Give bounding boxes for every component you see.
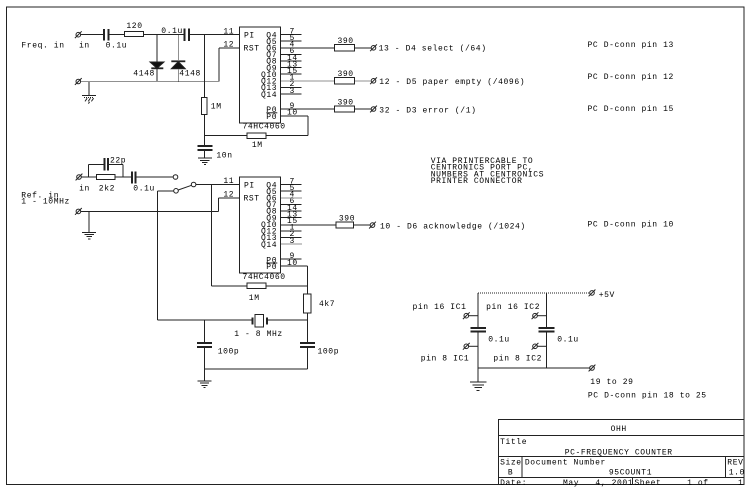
ground oscillator [198,369,212,388]
wire Q6 pin4 out [281,47,335,49]
svg-text:100p: 100p [218,348,240,357]
wire decoupling col2 [546,293,548,368]
wire [306,313,308,343]
svg-text:11: 11 [223,177,234,186]
title block size divider [521,457,523,478]
wire [196,184,240,186]
svg-text:120: 120 [126,22,142,31]
resistor R 390 row3 [335,106,355,112]
svg-text:3: 3 [290,237,295,246]
resistor R 1M feedback [247,133,266,138]
pin stub Q6 pin4 IC2 [281,197,302,199]
wire 22p branch [89,164,105,177]
pin stub Q14 pin3 IC2 [281,243,302,245]
wire P0bar pin10 IC2 [281,266,308,294]
svg-text:in: in [79,41,90,50]
wire Q12 pin1 out [281,80,335,82]
wire feedback IC2 row [212,285,247,287]
resistor R 390 row4 [336,222,353,228]
connector +5V [589,290,596,297]
svg-text:0.1u: 0.1u [133,184,155,193]
svg-text:390: 390 [338,98,354,107]
svg-text:PC D-conn pin 10: PC D-conn pin 10 [588,221,674,230]
pin stub Q10 pin15 [281,73,302,75]
wire RST IC2 [219,198,240,212]
wire [136,176,174,178]
capacitor C 0.1u IC1 [470,328,486,332]
svg-text:PI: PI [244,181,255,190]
connector pin16 IC2 [532,312,547,319]
connector J1 ground pin [75,78,82,85]
wire [109,34,125,36]
svg-text:1M: 1M [249,294,260,303]
wire [353,224,370,226]
svg-text:100p: 100p [318,348,340,357]
svg-text:1M: 1M [211,103,222,112]
resistor R 4k7 [304,294,311,313]
op-amp U1 74HC4060 body [240,27,281,123]
ground power [470,368,487,390]
svg-text:RST: RST [244,45,260,54]
svg-text:pin 16 IC1: pin 16 IC1 [413,303,467,312]
capacitor C 0.1u IC2 [539,328,555,332]
wire [355,108,372,110]
svg-text:Date:: Date: [500,479,527,488]
diode D2 4148 [171,35,185,82]
wire switch to crystal vertical [157,191,159,320]
switch S1 lever [178,185,191,190]
svg-text:Q14: Q14 [261,91,277,100]
svg-text:Title: Title [500,438,527,447]
pin stub Q9 pin13 [281,67,302,69]
svg-text:Document Number: Document Number [525,459,606,468]
svg-text:10 - D6 acknowledge (/1024): 10 - D6 acknowledge (/1024) [380,222,526,231]
svg-text:12: 12 [223,190,234,199]
pin stub Q9 pin13 IC2 [281,217,302,219]
wire P0 pin9 out [281,108,335,110]
svg-text:32 - D3 error (/1): 32 - D3 error (/1) [379,106,476,115]
svg-text:10: 10 [287,109,298,118]
capacitor C 100p left [197,320,212,369]
wire crystal row left [158,319,253,321]
svg-text:P0: P0 [266,113,277,122]
svg-text:0.1u: 0.1u [557,335,579,344]
svg-text:pin 16 IC2: pin 16 IC2 [486,303,540,312]
capacitor C 10n [197,136,212,158]
title block sheet divider [632,478,634,485]
wire ground net ref [81,210,219,212]
svg-text:pin 8 IC2: pin 8 IC2 [493,355,542,364]
wire [81,176,96,178]
svg-text:3: 3 [290,87,295,96]
svg-text:390: 390 [338,70,354,79]
capacitor C 0.1u input [104,29,109,40]
svg-text:11: 11 [223,27,234,36]
title block row line 2 [498,456,744,458]
svg-text:0.1u: 0.1u [488,335,510,344]
wire 22p branch right [108,164,123,177]
svg-text:1 - 10MHz: 1 - 10MHz [21,198,70,207]
connector out D6 [369,222,376,229]
svg-text:1M: 1M [252,141,263,150]
svg-text:PRINTER CONNECTOR: PRINTER CONNECTOR [431,177,523,186]
svg-text:0.1u: 0.1u [106,41,128,50]
pin stub Q12 pin1 IC2 [281,230,302,232]
svg-text:4148: 4148 [133,70,155,79]
wire oscillator bottom [205,368,308,370]
wire [158,190,174,192]
wire feedback IC2 left vertical [211,185,213,286]
resistor R 2k2 [96,175,115,180]
svg-text:1 of: 1 of [687,479,709,488]
svg-text:May 4, 2001: May 4, 2001 [563,479,633,488]
svg-text:RST: RST [244,195,260,204]
svg-text:1 - 8 MHz: 1 - 8 MHz [234,330,283,339]
svg-text:4148: 4148 [179,70,201,79]
pin stub Q13 pin2 [281,86,302,88]
connector out D3 [370,106,377,113]
switch S1 contact upper [173,175,178,180]
wire pin11 vertical [203,35,205,98]
connector J2 ground pin [75,208,82,215]
svg-text:10n: 10n [216,151,232,160]
pin stub Q4 pin7 IC2 [281,184,302,186]
wire [115,176,132,178]
svg-text:13 - D4 select (/64): 13 - D4 select (/64) [379,45,487,54]
svg-text:12: 12 [223,41,234,50]
svg-text:+5V: +5V [599,291,615,300]
resistor R 390 row2 [335,78,355,84]
title block rev divider [724,457,726,478]
ground 10n [198,158,212,165]
switch S1 contact lower [174,189,179,194]
wire P0bar vertical [307,116,309,136]
capacitor C 0.1u coupling [185,28,190,40]
wire RST to ground [219,48,240,82]
capacitor C 22p [105,158,109,170]
svg-text:1: 1 [738,479,743,488]
connector gnd return [589,365,596,372]
title block outer [498,420,744,485]
wire [203,114,205,135]
op-amp U2 74HC4060 body [240,177,281,273]
ground hatched [82,82,96,104]
resistor R 390 row1 [335,45,355,51]
svg-text:4k7: 4k7 [319,300,335,309]
title block row line 1 [498,435,744,437]
wire [355,80,372,82]
svg-text:pin 8 IC1: pin 8 IC1 [421,355,470,364]
svg-text:PC D-conn pin 13: PC D-conn pin 13 [588,41,674,50]
svg-text:74HC4060: 74HC4060 [243,123,286,132]
wire [266,285,307,287]
connector out D5 [370,77,377,84]
connector pin16 IC1 [463,312,478,319]
wire [355,47,372,49]
svg-text:PI: PI [244,31,255,40]
wire feedback row [204,135,247,137]
connector J1 Freq in [75,31,82,38]
diode D1 4148 [150,35,164,82]
svg-text:PC D-conn pin 15: PC D-conn pin 15 [588,105,674,114]
wire crystal row right [267,319,307,321]
wire +5V top [478,292,590,294]
svg-text:12 - D5 paper empty (/4096): 12 - D5 paper empty (/4096) [379,78,525,87]
pin stub Q5 pin5 [281,40,302,42]
svg-text:1.0: 1.0 [729,469,745,478]
pin stub Q8 pin14 IC2 [281,210,302,212]
pin stub Q7 pin6 [281,53,302,55]
pin stub Q8 pin14 [281,60,302,62]
pin stub Q7 pin6 IC2 [281,203,302,205]
svg-text:REV: REV [727,459,743,468]
wire ground net [81,81,219,83]
svg-text:PC D-conn pin 12: PC D-conn pin 12 [588,73,674,82]
resistor R 1M feedback IC2 [247,283,266,288]
wire [189,34,240,36]
svg-text:PC-FREQUENCY COUNTER: PC-FREQUENCY COUNTER [565,448,673,457]
svg-text:10: 10 [287,259,298,268]
wire ground bottom [478,367,590,369]
svg-text:22p: 22p [110,156,126,165]
connector pin8 IC2 [532,343,547,350]
svg-text:Q14: Q14 [261,241,277,250]
svg-text:B: B [508,469,513,478]
svg-text:19 to 29: 19 to 29 [590,378,633,387]
svg-text:74HC4060: 74HC4060 [243,273,286,282]
resistor R 1M vertical [202,98,208,115]
svg-text:OHH: OHH [611,425,627,434]
pin stub Q13 pin2 IC2 [281,236,302,238]
resistor R 120 [125,32,144,37]
connector out D4 [370,44,377,51]
svg-text:2k2: 2k2 [99,184,115,193]
crystal Y1 1-8MHz [253,314,268,327]
svg-text:PC D-conn pin 18 to 25: PC D-conn pin 18 to 25 [588,391,707,400]
wire P0bar pin10 [281,115,308,117]
svg-text:in: in [79,184,90,193]
ground ref [82,211,96,239]
switch S1 common [191,182,196,187]
svg-text:0.1u: 0.1u [161,27,183,36]
svg-text:Freq. in: Freq. in [21,41,64,50]
svg-text:Size: Size [500,459,522,468]
wire Q10 pin15 out [281,224,337,226]
pin stub P0 pin9 IC2 [281,258,302,260]
wire [144,34,185,36]
wire [81,34,104,36]
svg-text:390: 390 [339,214,355,223]
connector pin8 IC1 [463,343,478,350]
pin stub Q4 pin7 [281,34,302,36]
wire decoupling col1 [477,293,479,368]
svg-text:390: 390 [338,37,354,46]
pin stub Q5 pin5 IC2 [281,190,302,192]
pin stub Q14 pin3 [281,93,302,95]
title block row line 3 [498,477,744,479]
svg-text:P0: P0 [266,263,277,272]
capacitor C 100p right [300,343,315,369]
connector J2 Ref in [76,174,83,181]
svg-text:Sheet: Sheet [634,479,661,488]
wire [266,135,308,137]
svg-text:95COUNT1: 95COUNT1 [609,469,652,478]
capacitor C 0.1u ref [132,171,136,183]
